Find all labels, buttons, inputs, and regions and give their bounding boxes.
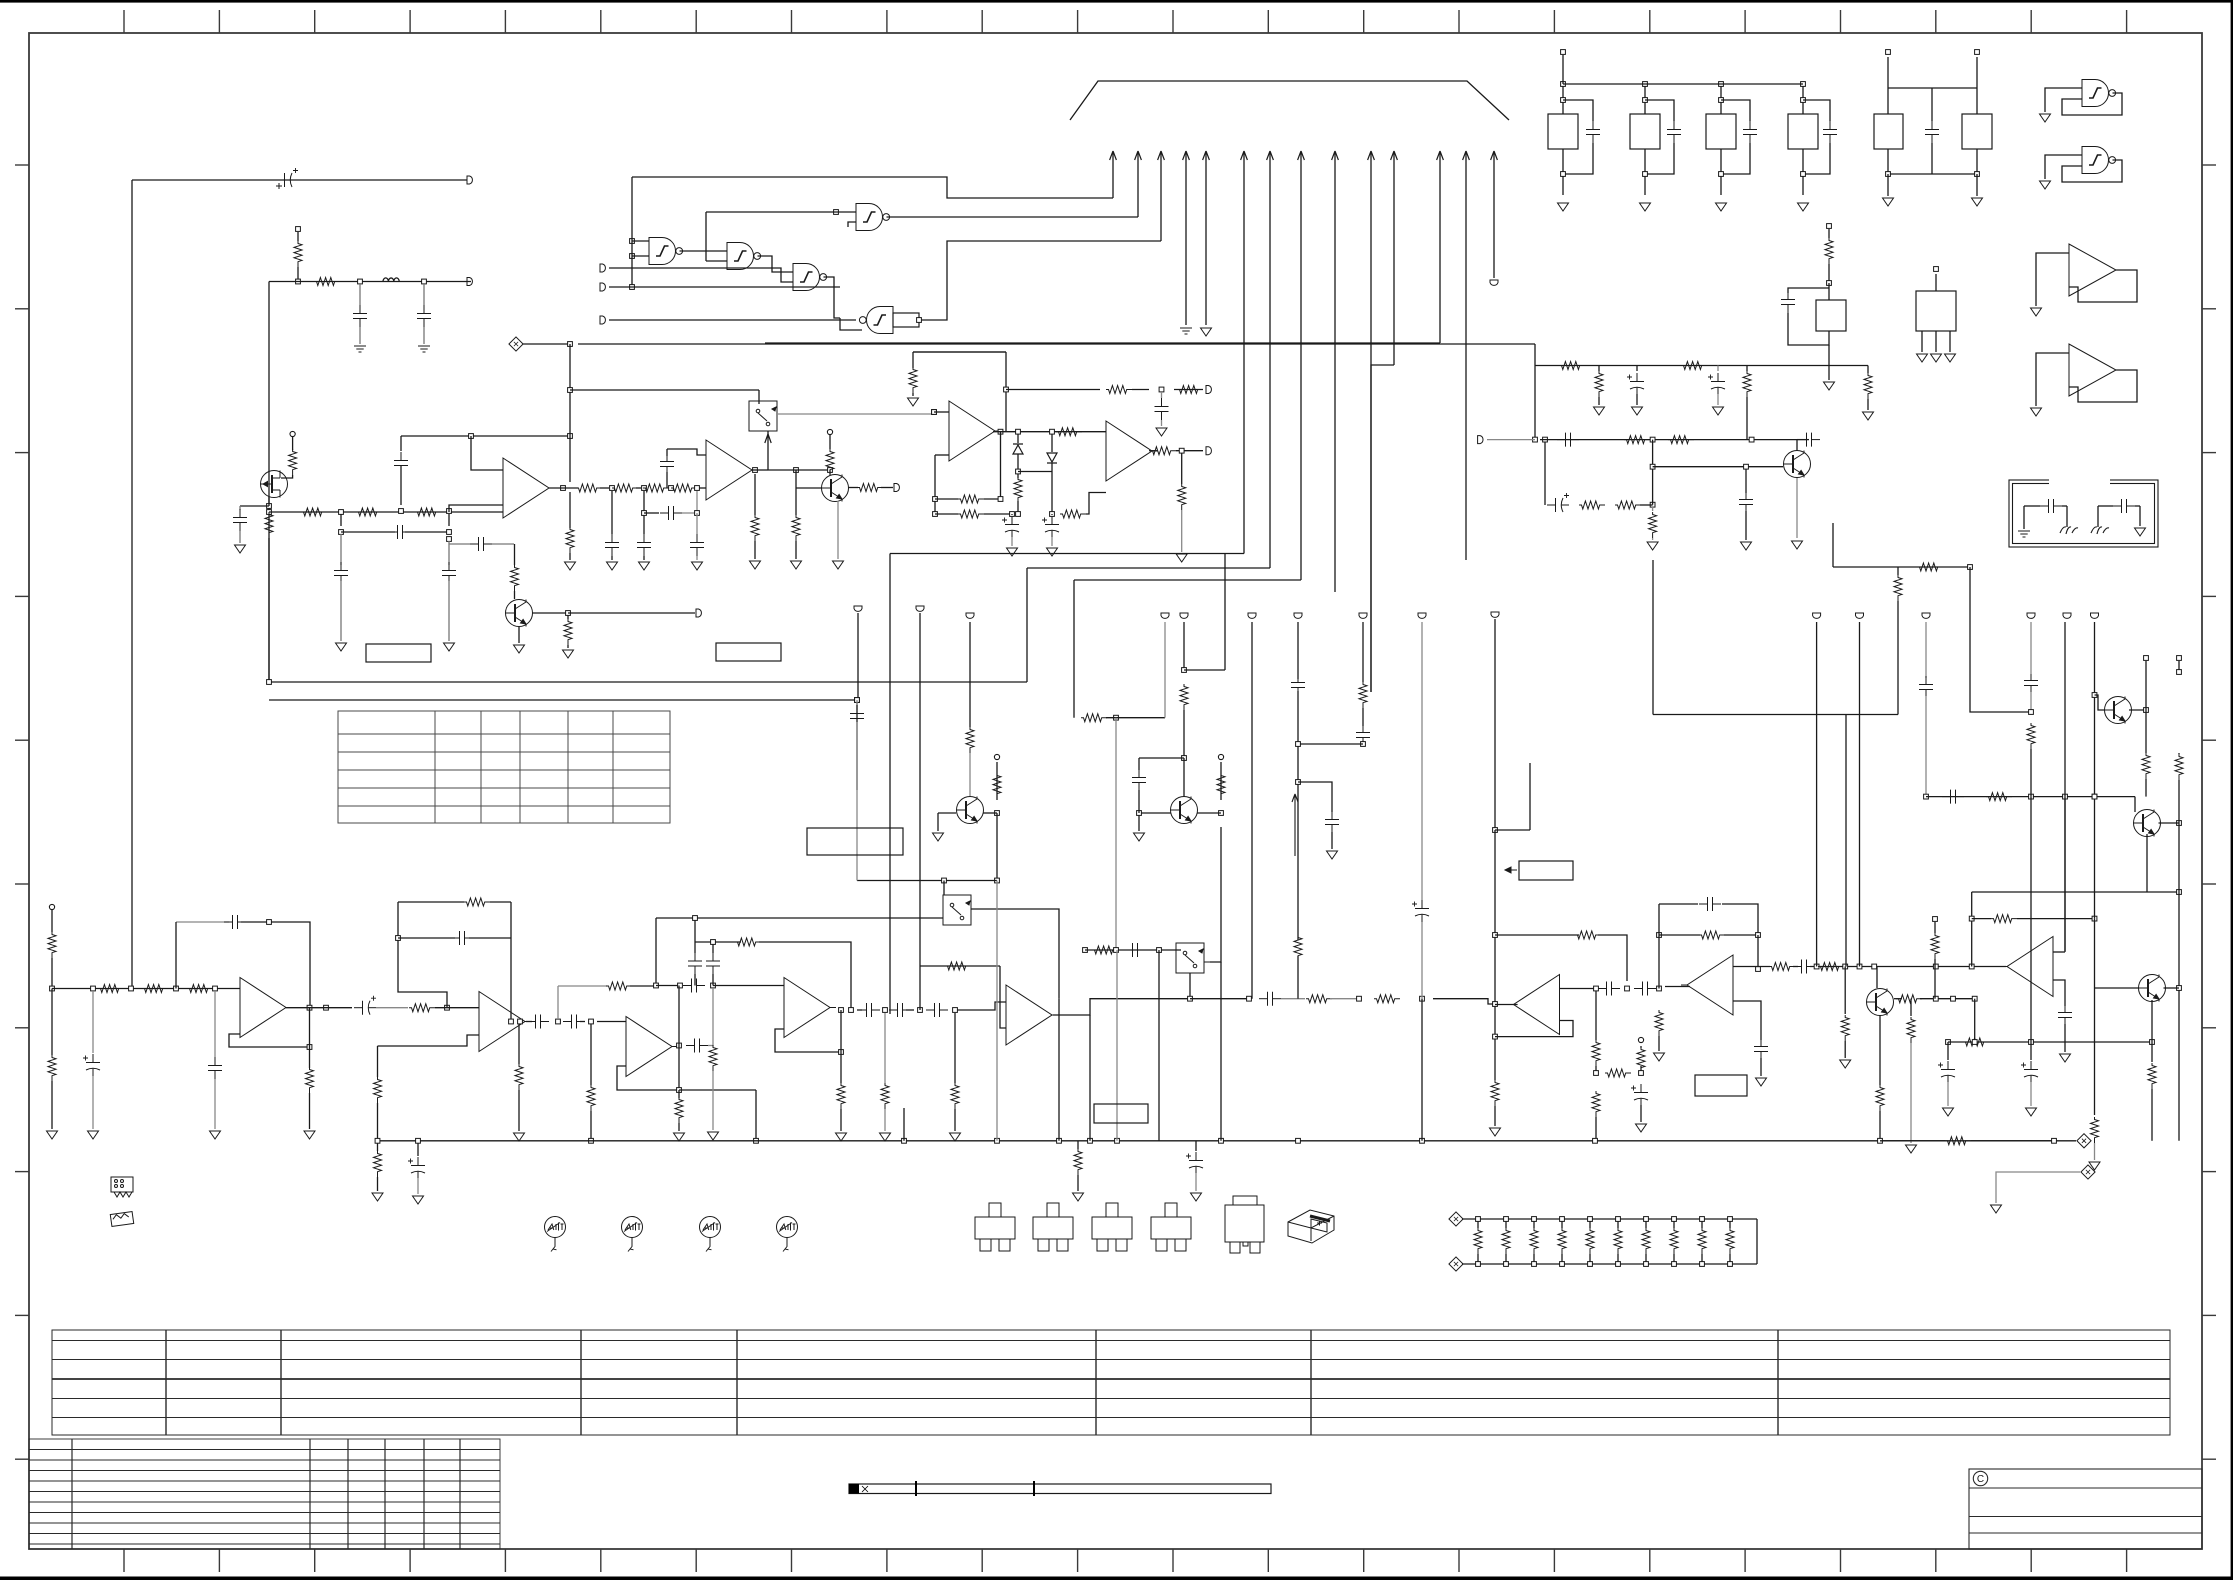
revision history table T3	[29, 1439, 500, 1549]
ladder resistor	[1645, 1219, 1647, 1228]
Q4 emitter	[1219, 811, 1224, 816]
U15 fb loop	[398, 902, 447, 1008]
resistor R26	[1017, 474, 1019, 478]
x1659 down	[1655, 1010, 1663, 1036]
pin P1	[467, 176, 472, 184]
title block with copyright	[1969, 1469, 2202, 1549]
x796 chain	[795, 470, 797, 515]
buffer B1	[2069, 244, 2116, 296]
resistor R27	[1060, 510, 1086, 518]
regulator block	[1630, 114, 1660, 149]
U16 out cap	[686, 1039, 708, 1053]
wire to C7	[340, 534, 342, 565]
connector trapezoid	[1070, 81, 1509, 120]
x1926 wire	[1925, 622, 1927, 678]
op-amp U12 (left-facing)	[1508, 975, 1560, 1035]
U17 out	[839, 1008, 844, 1013]
op-amp U2	[706, 440, 758, 500]
x215 cap	[214, 991, 216, 1057]
wire x1422 gray	[1421, 622, 1423, 900]
wire riser links	[765, 342, 1440, 344]
diamond 2	[2081, 1165, 2095, 1179]
bus end diamond	[1945, 1137, 1971, 1145]
wire fb x1545	[1544, 442, 1546, 505]
amp H (left-facing)	[2001, 937, 2053, 997]
node	[1420, 996, 1425, 1001]
wire x1535 down	[1534, 344, 1536, 440]
wire long y344 right	[578, 343, 1535, 345]
wire x1165 gray	[1164, 622, 1166, 718]
resistor R44	[1867, 366, 1869, 374]
resistor network ladder	[1449, 1212, 1463, 1226]
op-amp U9	[949, 401, 1001, 461]
wire gate top	[632, 177, 1113, 198]
arrow gnd	[1176, 554, 1187, 562]
PLACEHOLDER-CIRCUIT	[47, 50, 2184, 1271]
transistor Q7	[2095, 695, 2105, 710]
x1970 chain	[1970, 567, 2031, 712]
U9 output node	[1005, 352, 1007, 432]
revision table T1	[52, 1330, 2170, 1435]
nand U6 mirrored	[859, 307, 893, 334]
x841 down	[840, 1052, 842, 1083]
ladder resistor	[1673, 1219, 1675, 1228]
pin P20	[1478, 436, 1483, 444]
x1935 pin	[1933, 917, 1938, 922]
wire y880	[857, 880, 997, 882]
transistor Q5 cluster (left)	[969, 622, 971, 727]
buffer B2	[2069, 344, 2116, 396]
capacitor C8	[449, 543, 470, 545]
x955 down	[954, 1013, 956, 1083]
ground G7	[518, 627, 520, 643]
resistor R3	[289, 449, 297, 475]
x671 gray	[696, 491, 698, 513]
Q7 right	[2129, 709, 2146, 711]
resistor R5	[301, 508, 327, 516]
bus y682	[269, 681, 1027, 683]
resistor R41	[1681, 362, 1707, 370]
node	[1357, 996, 1362, 1001]
x2146 down	[2151, 1042, 2153, 1062]
pin feed	[1561, 50, 1566, 55]
row y1042	[1946, 1040, 1951, 1045]
pin P4	[290, 431, 295, 436]
U13 inputs	[1733, 966, 1770, 968]
bus riser 13	[1465, 152, 1467, 560]
resistor R51	[1092, 946, 1118, 954]
input row y988	[52, 988, 240, 990]
resistor R49	[1652, 507, 1654, 511]
U13 fb loop	[1657, 933, 1662, 938]
jfet Q1	[261, 471, 288, 498]
wire 890 vertical	[889, 554, 891, 1015]
wire y514	[1050, 512, 1055, 517]
rail top regs	[1563, 83, 1803, 85]
nand U7 feedback	[2082, 80, 2116, 107]
x713 gray	[712, 988, 714, 1046]
cap pol C22	[1051, 514, 1053, 515]
x605 cap	[611, 491, 613, 534]
x2179 chain	[2177, 656, 2182, 661]
resistor R42	[1598, 366, 1600, 372]
U15 lower	[378, 1035, 480, 1046]
wire S1 out	[777, 413, 934, 415]
Q2b emitter	[837, 501, 839, 559]
cap pol C41	[1717, 366, 1719, 372]
wire y390 out	[1006, 389, 1100, 391]
wire U6 out	[919, 241, 1161, 320]
ladder resistor	[1701, 1219, 1703, 1228]
op-amp U14	[240, 978, 292, 1038]
wire left vertical bus	[268, 282, 270, 683]
transistor Q6 emitter	[1879, 1015, 1881, 1085]
transistor Q6	[1876, 967, 1878, 989]
ic Y1 3-pin	[1916, 291, 1956, 331]
bus hangers	[375, 1138, 380, 1143]
node	[1114, 948, 1119, 953]
ground	[1796, 478, 1798, 538]
bus riser 5	[1205, 152, 1207, 325]
wire out y431	[993, 431, 1106, 433]
U13 lower	[1733, 1001, 1761, 1040]
x920 up	[919, 966, 921, 1010]
U12 fb row	[1495, 934, 1579, 936]
resistor R8	[576, 484, 602, 492]
svg-text:C: C	[1977, 1474, 1984, 1485]
resistor R43	[1746, 366, 1748, 372]
x1859 wire	[1859, 622, 1861, 967]
wire signal y512	[269, 511, 503, 513]
resistor R2	[314, 278, 340, 286]
node A2	[358, 279, 363, 284]
op-amp U16	[626, 1017, 678, 1077]
nand U3	[727, 243, 761, 270]
wire fb1	[934, 455, 936, 514]
op-amp U17	[784, 978, 836, 1038]
wire S3 out	[971, 909, 1059, 999]
resistor R4	[265, 512, 273, 538]
bus riser 4	[1185, 152, 1187, 325]
op-amp U15	[479, 992, 531, 1052]
x2031 chain	[2024, 672, 2038, 694]
x558 gray	[557, 986, 559, 1019]
ladder resistor	[1561, 1219, 1563, 1228]
capacitor C3	[423, 284, 425, 305]
bus riser 9	[1334, 152, 1336, 592]
x1845 down	[1844, 967, 1846, 1015]
wire to switch S1	[570, 389, 759, 391]
pin P10	[1206, 386, 1211, 394]
bus riser 11	[1393, 152, 1395, 365]
jack cap right	[2097, 506, 2099, 527]
bus riser 7	[1269, 152, 1271, 568]
resistor R1	[294, 241, 302, 267]
capacitor C51	[1259, 992, 1281, 1006]
ladder resistor	[1617, 1219, 1619, 1228]
fb resistor D4	[735, 938, 761, 946]
cap pol C21	[1011, 514, 1013, 515]
resistor R45	[1624, 436, 1650, 444]
pin P8	[600, 316, 605, 324]
inductor L1	[383, 278, 399, 282]
capacitor C5 feedback	[400, 466, 402, 505]
icon chip2	[110, 1212, 133, 1227]
resistor R23	[958, 510, 984, 518]
below bus hangers	[1077, 1141, 1079, 1149]
nand U4	[793, 264, 827, 291]
x1641 chain	[1638, 1037, 1643, 1042]
x1816 wire	[1816, 622, 1818, 967]
capacitor	[1823, 121, 1837, 143]
capacitor C1	[276, 168, 298, 187]
pin P11	[1206, 447, 1211, 455]
node A11	[447, 537, 452, 542]
resistor R47	[1579, 501, 1605, 509]
wire x1298	[1297, 622, 1299, 679]
label rect 3	[1695, 1075, 1747, 1096]
capacitor C15	[1925, 121, 1939, 143]
node A10b	[642, 486, 647, 491]
wire y918	[656, 917, 943, 919]
resistor R48	[1615, 501, 1641, 509]
diode D2	[1017, 434, 1019, 443]
capacitor C45	[1745, 469, 1747, 493]
x637 cap	[643, 491, 645, 534]
bus riser 3	[1160, 152, 1162, 241]
Q2b collector	[828, 468, 833, 473]
wire S2 down	[1189, 973, 1191, 999]
transistor Q2	[506, 600, 533, 627]
resistor R9	[566, 527, 574, 553]
node	[1650, 437, 1655, 442]
graphic scale bar	[849, 1481, 1271, 1496]
node	[1749, 437, 1754, 442]
node A8	[447, 509, 452, 514]
ladder resistor	[1729, 1219, 1731, 1228]
op-amp U1	[503, 458, 555, 518]
ground G1	[354, 346, 366, 352]
ruler ticks left	[15, 165, 29, 1459]
x2065 chain	[2064, 622, 2066, 797]
bus riser 10	[1370, 152, 1372, 692]
node A10c	[669, 486, 674, 491]
bus riser 6	[1243, 152, 1245, 554]
U16 out	[677, 1043, 682, 1048]
node A7	[399, 509, 404, 514]
ladder resistor	[1589, 1219, 1591, 1228]
x1596 chain	[1595, 991, 1597, 1040]
switch S2	[1176, 943, 1204, 973]
resistor R6	[356, 508, 382, 516]
wire output	[549, 487, 578, 489]
x2179 to bus	[2052, 1138, 2057, 1143]
ruler ticks bottom	[124, 1549, 2127, 1572]
fb resistor gray	[558, 985, 607, 987]
jack J1 double box	[2009, 480, 2158, 547]
ground G4	[565, 562, 576, 570]
parts table T2	[338, 711, 670, 823]
node A5	[267, 510, 272, 515]
jack cap left	[2023, 506, 2025, 529]
node A9	[561, 486, 566, 491]
wire Q2 out	[533, 612, 569, 614]
node A1	[296, 279, 301, 284]
bracket 1971	[1971, 892, 1973, 967]
x93 pcap	[92, 991, 94, 1053]
pin P6	[600, 264, 605, 272]
transistor Q3	[1784, 451, 1811, 478]
U10 out	[1149, 450, 1157, 452]
node A10	[610, 486, 615, 491]
row y918	[1991, 915, 2017, 923]
x2094 down	[2094, 622, 2096, 919]
resistor R8b	[612, 484, 638, 492]
big package	[1225, 1196, 1264, 1253]
Q6 out row	[1894, 998, 1902, 1000]
pin P22	[1491, 612, 1499, 617]
x52 chain	[49, 904, 54, 909]
node	[1114, 715, 1119, 720]
resistor R21	[1056, 428, 1082, 436]
resistor R46	[1668, 436, 1694, 444]
ladder resistor	[1477, 1219, 1479, 1228]
U2 fb cap	[666, 449, 668, 456]
node	[1179, 448, 1184, 453]
node	[1159, 387, 1164, 392]
x591 chain	[590, 1024, 592, 1085]
resistor R53	[1374, 995, 1400, 1003]
capacitor C50	[1124, 943, 1146, 957]
input row y439	[1540, 439, 1797, 441]
wire x1116 down gray	[1115, 718, 1117, 950]
swbox drop	[767, 431, 769, 470]
resistor-box	[893, 313, 919, 327]
wire x1074	[1073, 580, 1075, 718]
transistor Q8	[2134, 797, 2136, 812]
wire branch down	[569, 344, 571, 436]
node A4	[267, 504, 272, 509]
pin P5	[696, 609, 701, 617]
resistor R8c	[643, 484, 669, 492]
node	[1543, 437, 1548, 442]
capacitor C43	[1798, 433, 1820, 447]
ground G6	[444, 643, 455, 651]
label box D	[1094, 1104, 1148, 1123]
transistor Q2b	[822, 475, 849, 502]
nand U2	[649, 238, 683, 265]
regulator block	[1706, 114, 1736, 149]
diode D3	[1051, 434, 1053, 452]
x1911 down	[1910, 999, 1912, 1016]
x1898 chain	[1833, 566, 1970, 568]
pins right	[1813, 613, 1821, 618]
U11 fb	[920, 965, 1000, 967]
transistor Q9	[2139, 975, 2166, 1002]
U14 lower loop	[229, 1034, 310, 1047]
caps x695x713	[694, 918, 696, 942]
wire gate to cap	[240, 505, 269, 507]
ground G5	[336, 643, 347, 651]
U17 lower loop	[775, 1029, 841, 1052]
resistor R24	[1106, 386, 1132, 394]
wire diode row	[1018, 471, 1052, 473]
wire feedback top	[401, 435, 570, 437]
pin P3	[467, 278, 472, 286]
wire collector	[1797, 439, 1809, 441]
wire x1184	[1183, 622, 1185, 670]
resistor R11	[567, 615, 569, 619]
page edge black strips	[0, 0, 2233, 3]
resistor R29	[1181, 453, 1183, 484]
resistor R8d	[671, 484, 697, 492]
wire top-left feed	[131, 180, 133, 988]
bus riser 1	[1112, 152, 1114, 198]
icon chip1	[111, 1177, 133, 1197]
op-amp U11	[1006, 985, 1058, 1045]
bus y700	[269, 699, 857, 701]
nand U5	[856, 204, 890, 231]
wire S2 right	[1204, 961, 1210, 963]
battery 3d icon	[1288, 1210, 1334, 1243]
switch S1	[749, 401, 777, 431]
ruler ticks top	[124, 10, 2127, 33]
wire x944 switch3	[943, 881, 945, 896]
resistor R40	[1559, 362, 1585, 370]
node A3	[422, 279, 427, 284]
U14 fb	[176, 921, 229, 923]
wire U5 out	[887, 216, 1139, 218]
node	[1650, 502, 1655, 507]
wire x1363	[1362, 622, 1364, 682]
switch S3	[943, 895, 971, 925]
resistor R20	[909, 367, 917, 393]
capacitor C42	[1557, 433, 1579, 447]
pin P7	[600, 283, 605, 291]
ground G8	[563, 650, 574, 658]
capacitor C6 lower	[340, 514, 342, 526]
crystal X1	[1827, 224, 1832, 229]
x306 down	[309, 1047, 311, 1068]
op-amp U13 (left-facing)	[1681, 955, 1733, 1015]
capacitor C20	[1161, 392, 1163, 398]
resistor R28	[1150, 447, 1176, 455]
ladder resistor	[1505, 1219, 1507, 1228]
U12 input row	[1495, 1004, 1518, 1006]
op-amp U10	[1106, 421, 1158, 481]
wire input lowpass	[269, 281, 471, 283]
label rect w/ arrow	[1519, 861, 1573, 880]
cap pol C44	[1547, 493, 1569, 512]
capacitor	[1743, 121, 1757, 143]
resistor R25	[1177, 386, 1203, 394]
wire x1254	[1251, 622, 1253, 999]
node	[1157, 948, 1162, 953]
Q2b base	[796, 487, 822, 489]
U11 out	[1053, 999, 1190, 1015]
U12 lower loop	[1495, 1021, 1573, 1037]
bus riser 8	[1300, 152, 1302, 580]
sot23 packages	[975, 1203, 1015, 1251]
pins row mid	[1161, 613, 1169, 618]
resistor R7	[415, 508, 441, 516]
connector D1	[509, 337, 523, 351]
cap pol C40	[1636, 366, 1638, 372]
capacitor C4	[233, 509, 247, 531]
regulator block	[1548, 114, 1578, 149]
Q2b out	[849, 487, 859, 489]
resistor R10	[514, 544, 516, 565]
